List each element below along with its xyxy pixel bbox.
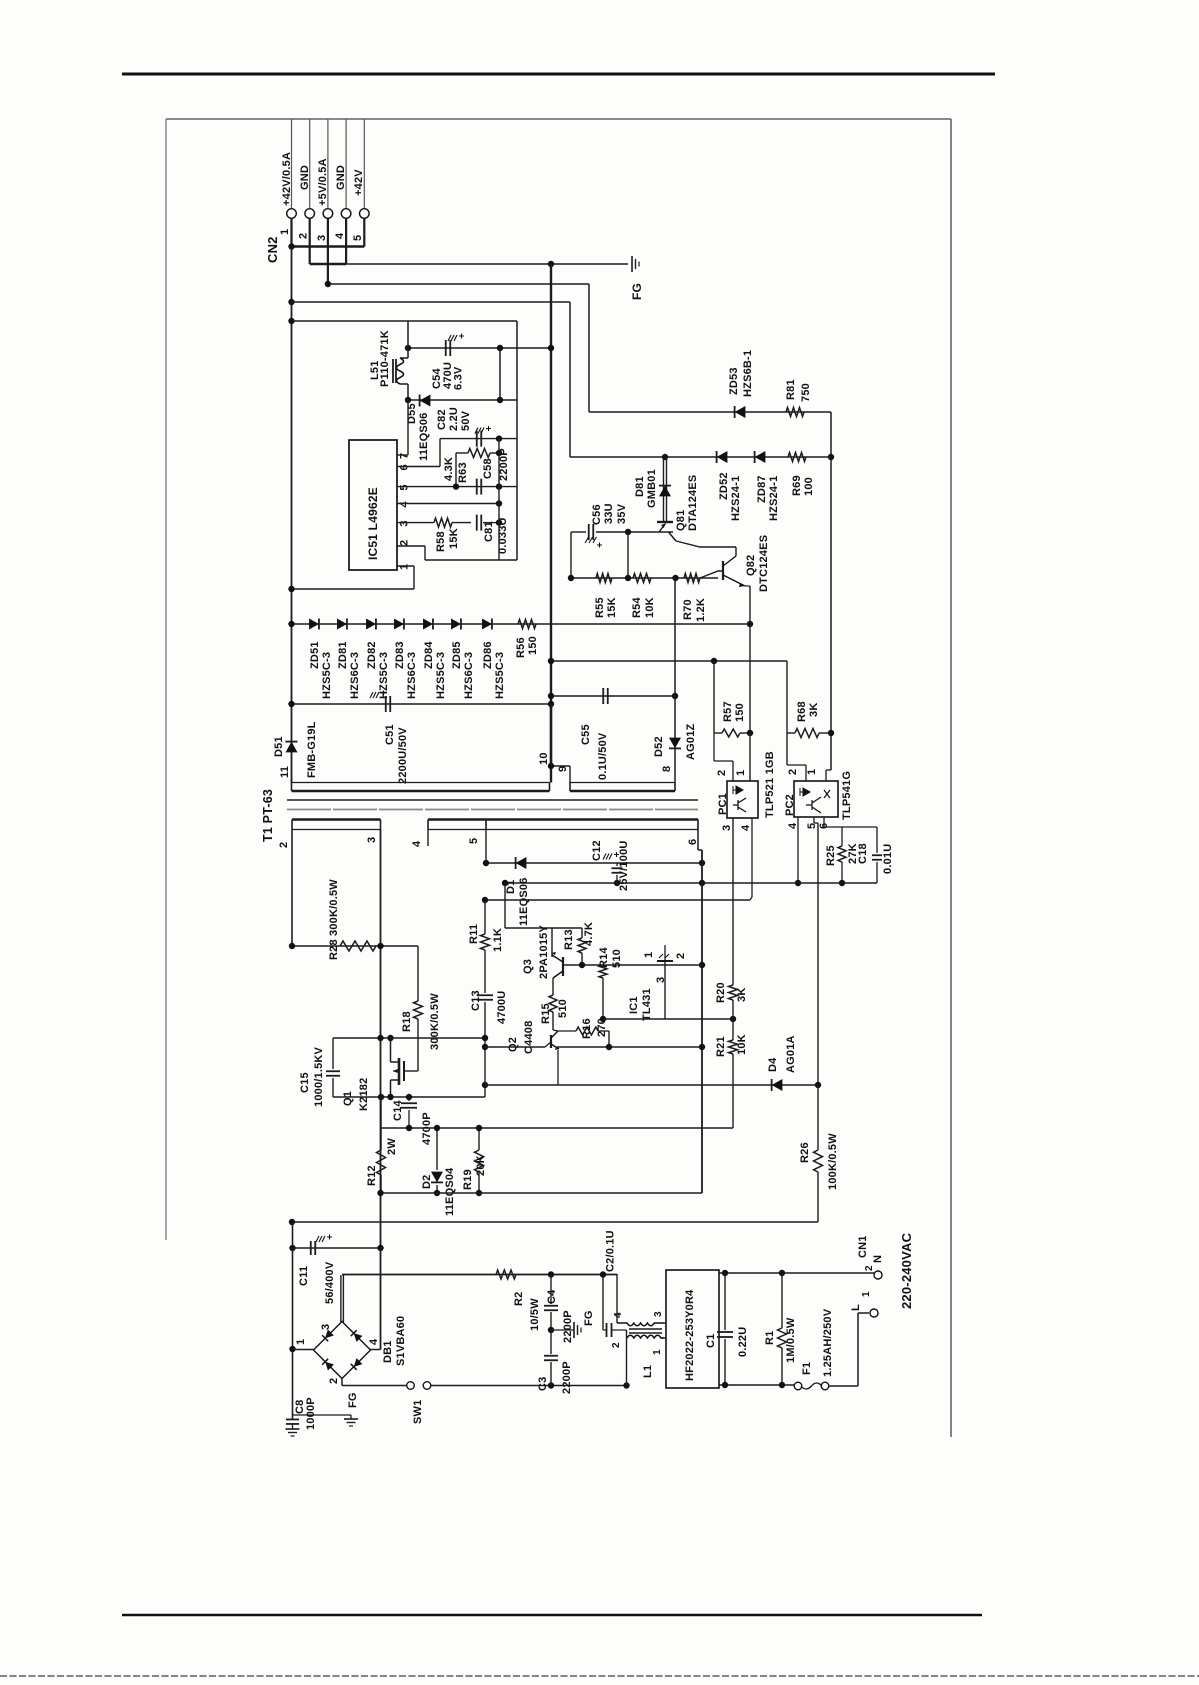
capacitor C81: [476, 515, 478, 531]
svg-text:2.2U: 2.2U: [448, 407, 460, 431]
svg-text:R54: R54: [631, 597, 643, 618]
wire CN2-4 down: [345, 219, 347, 265]
svg-text:R11: R11: [468, 924, 480, 944]
wire y578 R55 R54 R70: [571, 577, 718, 579]
svg-text:1: 1: [279, 229, 291, 235]
svg-text:5: 5: [399, 484, 411, 490]
svg-text:2W: 2W: [386, 1138, 398, 1155]
svg-text:3: 3: [316, 235, 328, 241]
resistor R69: [788, 453, 806, 462]
wire PC1 pin1 column x750: [749, 624, 751, 781]
resistor R12: [380, 1097, 382, 1150]
resistor R11 column: [484, 900, 486, 934]
capacitor C3: [550, 1330, 552, 1354]
diode D2: [436, 1128, 438, 1170]
wire Q3 base line y965: [563, 964, 702, 966]
wire pin5 column: [485, 830, 487, 864]
svg-text:1: 1: [861, 1291, 872, 1297]
connector CN1 pin2 circle: [874, 1271, 882, 1279]
wire Q2 base from C13: [485, 1046, 545, 1048]
svg-text:R25: R25: [825, 845, 837, 866]
capacitor C8 earth: [286, 1428, 300, 1430]
svg-text:HF2022-253Y0R4: HF2022-253Y0R4: [684, 1289, 696, 1381]
line filter box HF2022: [666, 1270, 719, 1388]
svg-text:ZD81: ZD81: [337, 641, 349, 669]
capacitor C2: [602, 1274, 604, 1330]
resistor R19: [478, 1128, 480, 1150]
svg-text:HZS5C-3: HZS5C-3: [494, 652, 506, 699]
svg-text:S1VBA60: S1VBA60: [395, 1316, 407, 1366]
IC51 pin7 wire to switch node: [397, 454, 408, 456]
svg-text:HZS6C-3: HZS6C-3: [406, 652, 418, 699]
IC51 pin6 wire: [397, 466, 440, 468]
svg-text:2: 2: [298, 233, 310, 239]
capacitor C4: [550, 1274, 552, 1304]
wire y321 to x517: [292, 320, 518, 322]
svg-text:F1: F1: [801, 1362, 813, 1375]
wire switch node y400: [408, 399, 517, 401]
transformer secondary winding 11-10: [291, 779, 293, 791]
svg-text:4: 4: [787, 822, 799, 829]
wire y900: [485, 899, 750, 901]
svg-text:R58: R58: [435, 531, 447, 552]
wire x831 down: [830, 412, 832, 770]
svg-text:1000P: 1000P: [305, 1397, 317, 1430]
svg-text:10/5W: 10/5W: [529, 1298, 541, 1331]
svg-text:3K: 3K: [736, 988, 748, 1002]
wire L1 to box: [664, 1322, 667, 1324]
svg-text:C3: C3: [537, 1377, 549, 1391]
capacitor C18: [876, 827, 878, 853]
svg-text:2200P: 2200P: [561, 1361, 573, 1394]
svg-text:3: 3: [399, 520, 411, 526]
wire to bridge left corner: [293, 1349, 314, 1351]
wire PC2 pin4 down: [797, 817, 799, 883]
choke L1 winding bottom: [626, 1337, 629, 1339]
svg-text:R56: R56: [515, 637, 527, 658]
resistor R55: [596, 574, 612, 583]
svg-text:Q81: Q81: [675, 510, 687, 531]
svg-text:R12: R12: [366, 1165, 378, 1186]
capacitor C8: [286, 1418, 299, 1420]
wire drain line y1038: [333, 1037, 485, 1039]
resistor R70: [684, 574, 700, 583]
resistor R81: [786, 408, 804, 417]
svg-text:TLP521 1GB: TLP521 1GB: [764, 751, 776, 818]
svg-text:6: 6: [687, 839, 699, 845]
diode D51: [286, 742, 298, 753]
capacitor C15: [332, 1038, 334, 1069]
resistor R13: [581, 928, 583, 938]
transistor Q81: [657, 521, 673, 523]
wire C13 bottom to y1097: [484, 1085, 486, 1097]
transformer pin 9 wire: [569, 766, 571, 783]
svg-text:SW1: SW1: [412, 1400, 424, 1424]
svg-text:4700U: 4700U: [496, 991, 508, 1024]
svg-text:25V/100U: 25V/100U: [618, 840, 630, 891]
capacitor C11: [310, 1241, 312, 1255]
svg-text:2: 2: [716, 770, 728, 776]
svg-text:R19: R19: [462, 1169, 474, 1190]
svg-text:R81: R81: [785, 379, 797, 400]
svg-text:K2182: K2182: [358, 1078, 370, 1111]
optocoupler PC2 photodevice: [806, 790, 830, 813]
wire R68 corner: [786, 661, 788, 765]
svg-text:Q2: Q2: [507, 1037, 519, 1052]
wire IC1 ref line y1019: [603, 1018, 733, 1020]
page top rule: [122, 73, 995, 76]
wire x292 down to bridge and C8: [292, 1222, 294, 1419]
svg-text:9: 9: [557, 766, 569, 772]
svg-text:R70: R70: [682, 599, 694, 620]
resistor R57: [714, 732, 722, 734]
svg-text:6.3V: 6.3V: [453, 366, 465, 390]
switch SW1: [407, 1382, 415, 1390]
resistor R2: [496, 1270, 516, 1279]
resistor R16: [576, 1027, 598, 1035]
svg-text:ZD86: ZD86: [482, 641, 494, 669]
wire PC2 pin5 long column x818: [813, 817, 815, 823]
wire y1085 trunk: [485, 1084, 818, 1086]
zener ZD83: [394, 619, 404, 630]
wire trunk y1128: [381, 1127, 734, 1129]
CN2 pin 2 stub to frame: [309, 119, 311, 208]
svg-text:AG01Z: AG01Z: [685, 723, 697, 760]
svg-text:5: 5: [468, 838, 480, 844]
optocoupler PC2 box: [794, 781, 838, 817]
capacitor C58: [476, 479, 478, 495]
svg-text:2: 2: [675, 953, 687, 959]
wire bridge top to AC line: [340, 1275, 342, 1322]
wire CN2-5 down: [363, 219, 365, 247]
capacitor C56 branch: [570, 532, 572, 578]
CN2 pin 5 stub to frame: [363, 119, 365, 208]
zener ZD85: [451, 619, 461, 630]
svg-text:7: 7: [399, 453, 411, 459]
wire x505 to y928: [504, 883, 506, 928]
svg-text:R15: R15: [540, 1003, 552, 1024]
svg-text:T1 PT-63: T1 PT-63: [261, 789, 275, 842]
transformer core: [287, 799, 698, 801]
svg-text:ZD87: ZD87: [756, 475, 768, 503]
wire F1 to CN1 L: [829, 1385, 858, 1387]
zener ZD87: [755, 451, 766, 463]
svg-text:C4408: C4408: [523, 1021, 535, 1054]
svg-text:150: 150: [734, 703, 746, 722]
svg-text:2: 2: [328, 1378, 340, 1384]
svg-text:1.1K: 1.1K: [492, 928, 504, 952]
svg-text:2: 2: [864, 1265, 875, 1271]
CN2 pin 4 stub to frame: [345, 119, 347, 208]
svg-text:HZS5C-3: HZS5C-3: [321, 652, 333, 699]
wire AC top right y1273: [719, 1272, 874, 1274]
wire bridge bottom to AC bottom line: [341, 1379, 343, 1386]
svg-text:4.3K: 4.3K: [443, 457, 455, 481]
capacitor C51: [385, 696, 387, 712]
transistor Q82: [722, 561, 724, 580]
svg-text:C56: C56: [591, 504, 603, 525]
svg-text:1.25AH/250V: 1.25AH/250V: [822, 1308, 834, 1377]
transistor Q2: [550, 1035, 552, 1048]
diode D81: [659, 486, 671, 497]
page bottom edge scan line: [0, 1675, 1199, 1677]
svg-text:11EQS06: 11EQS06: [418, 413, 430, 462]
resistor R14: [599, 965, 607, 978]
bridge rectifier DB1: [314, 1322, 371, 1379]
optocoupler PC1 LED: [733, 786, 743, 794]
wire PC2 pin2 jog: [787, 764, 806, 766]
IC51 pin4 wire: [397, 503, 499, 505]
CN2 pin 3 stub to frame: [327, 119, 329, 208]
wire x500: [499, 348, 501, 400]
resistor R25: [841, 827, 843, 846]
svg-text:2: 2: [611, 1342, 622, 1348]
svg-text:PC1: PC1: [717, 793, 729, 815]
resistor R63: [456, 452, 468, 454]
wire CN2-3 down: [327, 219, 329, 285]
svg-text:750: 750: [800, 383, 812, 402]
svg-text:0.1U/50V: 0.1U/50V: [597, 732, 609, 780]
wire PC1 pin3 down / R20 column: [732, 818, 734, 985]
wire Q81 collector to Q82: [676, 541, 736, 547]
bridge DB1 diode top-right: [351, 1330, 363, 1342]
svg-text:510: 510: [611, 949, 623, 968]
svg-text:GND: GND: [299, 165, 311, 190]
svg-text:ZD83: ZD83: [394, 641, 406, 669]
svg-text:2200P: 2200P: [498, 448, 510, 481]
svg-text:20K: 20K: [475, 1155, 487, 1176]
capacitor C56: [588, 524, 590, 540]
wire C55 line y696: [551, 695, 675, 697]
svg-text:3: 3: [655, 977, 667, 983]
svg-text:R28 300K/0.5W: R28 300K/0.5W: [328, 879, 340, 960]
zener ZD53: [735, 406, 746, 418]
svg-text:D81: D81: [634, 476, 646, 497]
diode D81 wire: [663, 457, 665, 521]
svg-text:FG: FG: [583, 1310, 595, 1326]
svg-text:R26: R26: [799, 1142, 811, 1163]
svg-text:3: 3: [366, 837, 378, 843]
svg-text:TLP541G: TLP541G: [841, 771, 853, 820]
resistor R54: [633, 574, 651, 583]
wire trunk y1193: [381, 1192, 703, 1194]
svg-text:D52: D52: [653, 736, 665, 757]
FG mid earth: [551, 1329, 574, 1331]
svg-text:IC51 L4962E: IC51 L4962E: [366, 487, 380, 560]
svg-text:3: 3: [721, 825, 733, 831]
svg-text:C4: C4: [546, 1289, 558, 1304]
capacitor C13: [484, 950, 486, 993]
svg-text:C81: C81: [483, 521, 495, 542]
capacitor C12: [616, 863, 618, 866]
optocoupler PC2 LED: [800, 788, 810, 796]
svg-text:2200U/50V: 2200U/50V: [397, 727, 409, 784]
svg-text:C82: C82: [436, 409, 448, 430]
svg-text:510: 510: [557, 999, 569, 1018]
svg-text:1: 1: [652, 1349, 663, 1355]
wire +42V to x570: [292, 301, 571, 303]
svg-text:3: 3: [320, 1324, 332, 1330]
svg-text:R13: R13: [563, 929, 575, 950]
transistor Q1 mosfet: [403, 1061, 405, 1081]
wire AC top line y1274: [342, 1274, 617, 1276]
svg-text:R16: R16: [581, 1018, 593, 1039]
svg-text:0.22U: 0.22U: [737, 1327, 749, 1357]
wire pin4 column: [427, 830, 429, 847]
node y321: [288, 318, 294, 324]
sheet frame right edge: [950, 119, 952, 1437]
svg-text:Q3: Q3: [522, 959, 534, 974]
capacitor C55: [602, 688, 604, 704]
svg-text:ZD51: ZD51: [309, 641, 321, 669]
svg-text:3K: 3K: [808, 703, 820, 717]
svg-text:CN1: CN1: [857, 1235, 869, 1258]
optocoupler PC1 box: [727, 781, 758, 818]
resistor R18 column: [417, 946, 419, 1001]
svg-text:C13: C13: [470, 990, 482, 1011]
svg-text:0.01U: 0.01U: [882, 844, 894, 874]
svg-text:220-240VAC: 220-240VAC: [899, 1232, 914, 1309]
resistor R1: [781, 1273, 783, 1328]
svg-text:2200P: 2200P: [562, 1310, 574, 1343]
node +42V y302: [288, 299, 294, 305]
wire +42V y457: [570, 456, 831, 458]
FG earth symbol top: [631, 256, 633, 272]
svg-text:ZD85: ZD85: [451, 641, 463, 669]
zener ZD52: [717, 451, 728, 463]
svg-text:FG: FG: [347, 1392, 359, 1408]
svg-text:1.2K: 1.2K: [695, 598, 707, 622]
svg-text:D51: D51: [273, 736, 285, 757]
optocoupler PC1 transistor: [733, 798, 746, 812]
svg-text:1: 1: [735, 770, 747, 776]
resistor R28: [340, 941, 376, 951]
svg-text:DTC124ES: DTC124ES: [758, 535, 770, 592]
resistor R26: [817, 1085, 819, 1150]
svg-text:HZS24-1: HZS24-1: [768, 476, 780, 521]
CN2 pin 2 circle: [305, 209, 315, 219]
svg-text:R69: R69: [791, 475, 803, 496]
wire x714 down to R57: [713, 661, 715, 733]
wire CN2-2 down: [309, 219, 311, 265]
wire x589 down: [588, 284, 590, 412]
svg-text:GMB01: GMB01: [646, 469, 658, 508]
svg-text:11: 11: [279, 766, 291, 778]
svg-text:33U: 33U: [603, 503, 615, 524]
svg-text:+42V/0.5A: +42V/0.5A: [281, 152, 293, 206]
svg-text:TL431: TL431: [641, 988, 653, 1021]
sheet frame top edge: [166, 118, 951, 120]
wire PC1 pin4 down: [751, 818, 753, 897]
capacitor C54 inline: [445, 340, 447, 356]
wire y1047 to main column: [557, 1046, 702, 1048]
svg-text:IC1: IC1: [628, 996, 640, 1014]
svg-text:4: 4: [411, 840, 423, 847]
wire D52 column x675: [674, 578, 676, 783]
svg-text:CN2: CN2: [265, 236, 280, 263]
capacitor C1: [724, 1273, 726, 1330]
wire y589: [292, 588, 415, 590]
transistor Q3: [551, 928, 553, 957]
transformer primary winding 2-3: [291, 820, 293, 830]
svg-text:N: N: [872, 1255, 884, 1263]
zener row wire y624: [292, 623, 751, 625]
capacitor C82 inline: [440, 438, 517, 440]
IC51 pin3 wire / R58 C81 inline: [397, 522, 434, 524]
resistor R68: [787, 732, 795, 734]
svg-text:10K: 10K: [736, 1034, 748, 1055]
svg-text:L1: L1: [642, 1365, 654, 1378]
svg-text:5: 5: [352, 235, 364, 241]
svg-text:ZD82: ZD82: [366, 641, 378, 669]
svg-text:4: 4: [613, 1312, 624, 1318]
svg-text:4.7K: 4.7K: [583, 922, 595, 946]
svg-text:C12: C12: [591, 840, 603, 861]
wire +42V tie pins 1-5: [292, 245, 365, 248]
IC51 pin2 wire: [397, 545, 425, 547]
svg-text:C1: C1: [705, 1334, 717, 1348]
svg-text:C18: C18: [857, 843, 869, 864]
bridge DB1 diode bottom-right: [351, 1358, 363, 1370]
diode D4: [772, 1079, 783, 1091]
wire +5V y412: [589, 411, 831, 413]
svg-text:R20: R20: [715, 982, 727, 1003]
svg-text:15K: 15K: [606, 597, 618, 618]
wire +42V rail column x291: [291, 247, 293, 783]
svg-text:C15: C15: [299, 1072, 311, 1093]
svg-text:D4: D4: [767, 1057, 779, 1072]
svg-text:2: 2: [278, 842, 290, 848]
wire x499 column: [498, 439, 500, 560]
inductor L51: [407, 321, 409, 348]
svg-text:HZS5C-3: HZS5C-3: [435, 652, 447, 699]
CN2 pin 1 circle: [287, 209, 297, 219]
CN2 pin 1 stub to frame: [291, 119, 293, 208]
wire x570 down to y457: [569, 302, 571, 457]
svg-text:10K: 10K: [644, 597, 656, 618]
svg-text:C2/0.1U: C2/0.1U: [605, 1230, 617, 1272]
svg-text:11EQS06: 11EQS06: [518, 878, 530, 927]
svg-text:D2: D2: [421, 1175, 433, 1189]
resistor R58: [434, 518, 452, 527]
shunt regulator IC1: [664, 945, 666, 961]
CN2 pin 5 circle: [360, 209, 370, 219]
transformer primary winding 4-5-6: [427, 820, 429, 830]
svg-text:11EQS04: 11EQS04: [444, 1167, 456, 1216]
svg-text:+42V: +42V: [353, 169, 365, 196]
svg-text:100: 100: [803, 477, 815, 496]
svg-text:R1: R1: [764, 1331, 776, 1345]
wire pin3 column x380: [380, 830, 382, 1249]
zener ZD86: [482, 619, 492, 630]
svg-text:6: 6: [399, 464, 411, 470]
wire pin2 column: [291, 830, 293, 947]
wire bridge right corner to x380 column: [371, 1349, 381, 1351]
zener ZD82: [366, 619, 376, 630]
svg-text:C55: C55: [580, 724, 592, 745]
svg-text:FG: FG: [630, 283, 644, 300]
wire AC bottom line y1386: [342, 1385, 406, 1387]
svg-text:1: 1: [806, 769, 818, 775]
svg-text:R55: R55: [594, 597, 606, 618]
svg-text:C51: C51: [384, 724, 396, 745]
svg-text:ZD84: ZD84: [423, 641, 435, 669]
svg-text:PC2: PC2: [784, 794, 796, 816]
svg-text:C14: C14: [392, 1100, 404, 1121]
svg-text:10: 10: [538, 752, 550, 765]
svg-text:FMB-G19L: FMB-G19L: [306, 721, 318, 778]
wire CN2-1 down: [290, 219, 292, 247]
